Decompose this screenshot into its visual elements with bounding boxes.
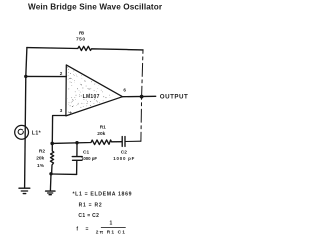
svg-text:+: + [69, 110, 72, 116]
svg-text:f =: f = [76, 226, 88, 232]
svg-text:C1 = C2: C1 = C2 [78, 213, 99, 219]
svg-text:2: 2 [60, 71, 63, 76]
svg-text:750: 750 [76, 36, 85, 42]
svg-text:6: 6 [123, 88, 126, 93]
svg-text:2π R1 C1: 2π R1 C1 [96, 230, 126, 236]
svg-text:OUTPUT: OUTPUT [160, 94, 188, 101]
svg-text:−: − [69, 76, 72, 82]
svg-text:C2: C2 [121, 149, 127, 155]
svg-text:20k: 20k [97, 131, 105, 137]
svg-text:LM107: LM107 [83, 94, 100, 100]
svg-text:R2: R2 [39, 148, 45, 154]
svg-text:R1: R1 [100, 125, 106, 131]
svg-text:R1 = R2: R1 = R2 [79, 202, 102, 208]
svg-text:Wein Bridge Sine Wave Oscillat: Wein Bridge Sine Wave Oscillator [28, 3, 163, 12]
svg-text:1000 pF: 1000 pF [113, 156, 134, 161]
svg-text:3: 3 [60, 108, 63, 113]
svg-text:20k: 20k [36, 156, 44, 162]
svg-text:1: 1 [110, 220, 113, 226]
svg-text:L1*: L1* [32, 131, 42, 137]
svg-text:*L1 = ELDEMA 1869: *L1 = ELDEMA 1869 [73, 191, 132, 197]
svg-text:C1: C1 [83, 150, 89, 156]
svg-text:R3: R3 [79, 31, 84, 37]
svg-text:1%: 1% [37, 163, 45, 169]
svg-text:1000 pF: 1000 pF [81, 156, 97, 161]
